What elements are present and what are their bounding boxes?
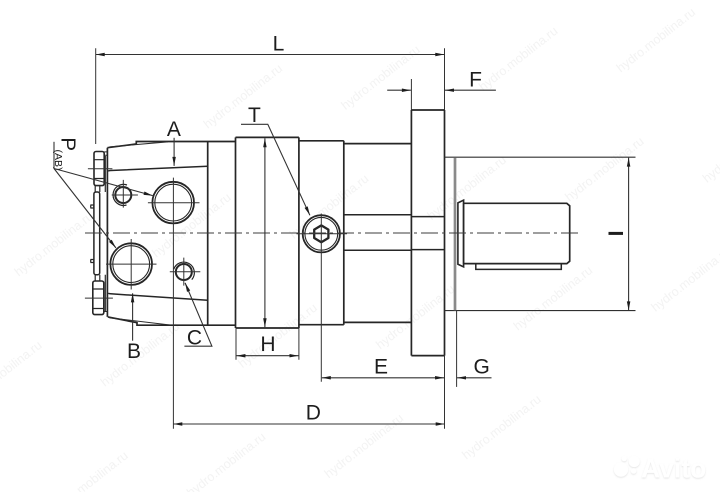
bolt B1 centerline tick: [88, 168, 113, 170]
svg-text:hydro.mobilina.ru: hydro.mobilina.ru: [649, 244, 720, 314]
dim flange height line: [264, 138, 266, 327]
leader A arrow: [173, 138, 175, 166]
dim L extension lines: [96, 48, 445, 144]
section S3 (299-344): [299, 141, 344, 325]
body top wedge line: [110, 142, 169, 147]
dim F line: [387, 89, 411, 91]
leader P underline: [53, 142, 55, 169]
svg-text:E: E: [374, 355, 388, 378]
leader P arrow to port A: [54, 169, 153, 196]
dim G line: [457, 377, 492, 379]
svg-text:hydro.mobilina.ru: hydro.mobilina.ru: [562, 134, 646, 204]
svg-text:hydro.mobilina.ru: hydro.mobilina.ru: [184, 430, 268, 492]
dim L line: [96, 54, 445, 56]
svg-text:hydro.mobilina.ru: hydro.mobilina.ru: [339, 43, 423, 113]
leader P arrow to port B: [54, 169, 116, 248]
bolt B2 washer line: [104, 311, 108, 313]
dim D extension line right: [444, 356, 446, 429]
leader B arrow: [132, 293, 134, 340]
svg-text:G: G: [474, 355, 490, 378]
svg-text:hydro.mobilina.ru: hydro.mobilina.ru: [201, 61, 285, 131]
port P small circle: [112, 180, 138, 208]
port T check valve circle: [297, 214, 348, 382]
svg-text:B: B: [127, 340, 141, 363]
bolt B2 (bottom hex bolt): [93, 281, 104, 315]
label I (rotated): [609, 232, 624, 235]
svg-text:F: F: [469, 68, 482, 91]
bolt B1 washer line: [104, 152, 107, 155]
body bottom wedge line: [110, 318, 171, 325]
flange bore lines: [411, 217, 444, 250]
bolt B1 (top hex bolt): [94, 152, 104, 186]
svg-text:T: T: [248, 104, 261, 127]
dim F extension line: [410, 79, 412, 110]
dim H line: [236, 355, 298, 357]
body left inner line: [104, 156, 106, 311]
wire main horizontal centerline: [85, 232, 581, 234]
svg-text:Avito: Avito: [641, 454, 706, 484]
rear neck lines: [344, 215, 412, 251]
port A large circle: [148, 178, 200, 429]
dim H extension lines: [236, 328, 299, 360]
port B large circle: [106, 239, 157, 290]
bolt B2 centerline tick: [85, 297, 113, 299]
pilot boss face (gray): [454, 158, 457, 310]
spacer section verticals: [235, 137, 237, 328]
body inner slant bottom: [108, 293, 208, 300]
svg-text:hydro.mobilina.ru: hydro.mobilina.ru: [614, 5, 698, 75]
leader T underline and arrow: [241, 124, 310, 215]
dim G extension line: [456, 311, 458, 387]
pilot boss top/bottom lines: [445, 157, 636, 310]
svg-text:hydro.mobilina.ru: hydro.mobilina.ru: [236, 301, 320, 371]
svg-text:hydro.mobilina.ru: hydro.mobilina.ru: [12, 209, 96, 279]
body inner slant top: [108, 166, 208, 171]
svg-text:hydro.mobilina.ru: hydro.mobilina.ru: [511, 263, 595, 333]
output shaft: [464, 203, 570, 263]
leader C underline and arrow: [184, 283, 212, 346]
dim I line: [628, 158, 630, 311]
svg-text:A: A: [167, 118, 181, 141]
svg-text:D: D: [306, 402, 321, 425]
output mounting flange F: [411, 110, 444, 356]
svg-text:hydro.mobilina.ru: hydro.mobilina.ru: [460, 392, 544, 462]
svg-text:hydro.mobilina.ru: hydro.mobilina.ru: [700, 115, 720, 185]
shaft collar: [458, 200, 464, 267]
shaft key: [476, 264, 562, 270]
dim D line: [173, 423, 444, 425]
mounting flange H section: [236, 137, 299, 328]
svg-text:H: H: [260, 333, 275, 356]
motor body outline: [107, 142, 235, 326]
port C small circle: [170, 258, 201, 286]
svg-text:hydro.mobilina.ru: hydro.mobilina.ru: [47, 448, 131, 492]
svg-text:L: L: [273, 33, 285, 56]
svg-text:hydro.mobilina.ru: hydro.mobilina.ru: [0, 338, 45, 408]
Avito watermark logo: [614, 454, 706, 484]
svg-text:hydro.mobilina.ru: hydro.mobilina.ru: [322, 411, 406, 481]
dim E line: [322, 377, 444, 379]
section S4 rear housing (344-411): [344, 144, 412, 323]
svg-text:hydro.mobilina.ru: hydro.mobilina.ru: [476, 24, 560, 94]
end cap plate: [91, 186, 100, 281]
